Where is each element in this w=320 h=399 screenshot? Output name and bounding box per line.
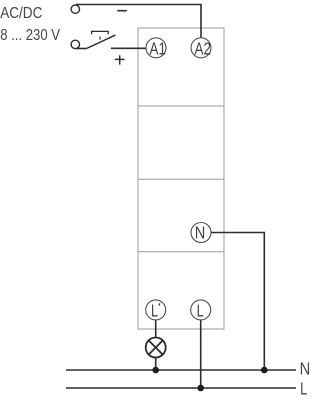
- svg-text:8 ... 230 V: 8 ... 230 V: [0, 27, 60, 44]
- svg-text:L: L: [197, 302, 204, 321]
- svg-text:A2: A2: [195, 40, 211, 59]
- svg-text:A1: A1: [150, 40, 166, 59]
- svg-text:L: L: [151, 302, 158, 321]
- svg-text:N: N: [195, 225, 206, 243]
- svg-text:L: L: [300, 380, 307, 399]
- svg-text:N: N: [300, 360, 311, 379]
- svg-text:AC/DC: AC/DC: [0, 5, 42, 22]
